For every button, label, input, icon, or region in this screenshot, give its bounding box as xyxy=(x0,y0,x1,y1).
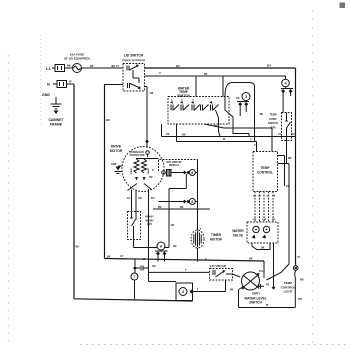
svg-text:7M: 7M xyxy=(149,176,152,179)
svg-text:BK: BK xyxy=(106,118,110,122)
svg-text:N: N xyxy=(47,82,50,87)
svg-text:7: 7 xyxy=(134,275,136,279)
svg-text:GR: GR xyxy=(272,196,276,198)
svg-text:V: V xyxy=(254,144,256,147)
svg-text:FRAME: FRAME xyxy=(50,123,63,127)
svg-text:W: W xyxy=(223,138,226,141)
svg-text:A: A xyxy=(171,99,173,102)
svg-text:8: 8 xyxy=(191,200,193,204)
svg-text:GND: GND xyxy=(42,93,50,97)
svg-text:3: 3 xyxy=(245,95,247,99)
svg-text:PROTECTOR: PROTECTOR xyxy=(130,154,145,157)
svg-text:BK: BK xyxy=(67,64,71,68)
svg-text:8: 8 xyxy=(191,171,193,175)
svg-text:L1: L1 xyxy=(46,66,51,71)
svg-text:BK LT: BK LT xyxy=(112,64,120,68)
svg-text:GY: GY xyxy=(258,196,262,198)
svg-text:GY: GY xyxy=(127,197,131,200)
svg-text:RN: RN xyxy=(300,279,304,282)
svg-text:W: W xyxy=(69,80,72,84)
svg-text:WASH: WASH xyxy=(146,218,154,222)
svg-text:HEAVY: HEAVY xyxy=(145,215,154,219)
svg-text:FULL: FULL xyxy=(259,270,266,273)
svg-text:BK: BK xyxy=(158,206,162,209)
svg-text:MP: MP xyxy=(288,157,292,160)
svg-text:SWITCH: SWITCH xyxy=(268,121,278,125)
svg-text:BU: BU xyxy=(253,196,257,198)
svg-text:1M: 1M xyxy=(166,133,169,136)
svg-text:BK: BK xyxy=(249,258,253,261)
svg-text:CABINET: CABINET xyxy=(48,118,64,122)
svg-text:6: 6 xyxy=(160,245,162,249)
svg-text:OR: OR xyxy=(260,113,264,116)
svg-text:BK: BK xyxy=(182,133,186,136)
svg-text:BU: BU xyxy=(151,197,155,200)
svg-text:BK: BK xyxy=(180,206,184,209)
svg-text:TEMP: TEMP xyxy=(269,113,276,117)
svg-text:V W: V W xyxy=(262,219,267,221)
svg-text:T: T xyxy=(200,228,202,231)
svg-text:PK: PK xyxy=(253,219,256,221)
svg-text:GND: GND xyxy=(111,163,117,166)
svg-text:2M: 2M xyxy=(171,224,174,227)
svg-text:TEMP: TEMP xyxy=(260,166,270,170)
svg-text:TIMER: TIMER xyxy=(211,233,222,237)
svg-text:V: V xyxy=(250,138,252,141)
svg-text:BR: BR xyxy=(299,298,303,301)
svg-text:MOTOR: MOTOR xyxy=(210,238,223,242)
svg-text:GY: GY xyxy=(120,255,124,258)
svg-text:BU: BU xyxy=(267,64,271,68)
svg-text:SWITCH: SWITCH xyxy=(249,301,262,305)
svg-text:BK: BK xyxy=(76,246,80,249)
svg-text:T: T xyxy=(185,269,187,272)
svg-text:1M: 1M xyxy=(236,97,239,100)
svg-text:GY: GY xyxy=(278,133,282,136)
svg-text:T: T xyxy=(197,288,199,291)
svg-text:CONT.: CONT. xyxy=(269,117,277,121)
svg-text:3: 3 xyxy=(182,290,184,294)
svg-text:LIGHT: LIGHT xyxy=(284,290,293,294)
svg-text:MAIN: MAIN xyxy=(147,168,150,174)
svg-text:2M: 2M xyxy=(173,245,176,248)
svg-text:BK: BK xyxy=(204,73,208,76)
svg-text:OR: OR xyxy=(138,197,142,200)
svg-text:DRIVE: DRIVE xyxy=(111,145,122,149)
svg-text:1M: 1M xyxy=(152,265,155,268)
svg-text:LID SWITCH: LID SWITCH xyxy=(124,54,144,58)
svg-text:MODULE: MODULE xyxy=(169,164,180,167)
svg-text:BK: BK xyxy=(90,65,94,68)
svg-text:BK: BK xyxy=(107,255,111,258)
svg-text:BU: BU xyxy=(176,64,180,68)
svg-text:(IF SO EQUIPPED): (IF SO EQUIPPED) xyxy=(64,57,89,61)
svg-text:BK: BK xyxy=(261,246,265,249)
svg-text:WATER: WATER xyxy=(232,229,244,233)
svg-text:S: S xyxy=(152,169,154,172)
svg-text:4: 4 xyxy=(284,82,287,86)
svg-text:V: V xyxy=(159,71,161,75)
svg-text:OR: OR xyxy=(266,196,270,198)
svg-text:PL: PL xyxy=(298,256,302,259)
svg-text:H: H xyxy=(192,100,194,102)
svg-text:BU: BU xyxy=(291,133,295,136)
svg-text:A: A xyxy=(181,99,183,102)
svg-text:(SP): (SP) xyxy=(270,125,275,129)
svg-text:PK: PK xyxy=(230,288,234,291)
svg-text:OR: OR xyxy=(272,219,276,221)
svg-text:CONTROL: CONTROL xyxy=(257,171,273,175)
svg-text:MOTOR: MOTOR xyxy=(110,149,123,153)
svg-text:W: W xyxy=(266,304,269,307)
svg-text:START: START xyxy=(130,167,133,175)
svg-text:E-P FUSE (SP): E-P FUSE (SP) xyxy=(210,265,227,268)
svg-text:2M: 2M xyxy=(214,125,217,128)
svg-text:(SP): (SP) xyxy=(147,222,152,226)
svg-text:VALVE: VALVE xyxy=(233,234,243,238)
svg-text:(open position): (open position) xyxy=(122,58,144,62)
svg-text:PK: PK xyxy=(266,283,270,286)
svg-text:5M: 5M xyxy=(150,91,154,95)
svg-text:SWITCH: SWITCH xyxy=(177,94,190,98)
svg-text:EMPTY: EMPTY xyxy=(252,293,261,296)
